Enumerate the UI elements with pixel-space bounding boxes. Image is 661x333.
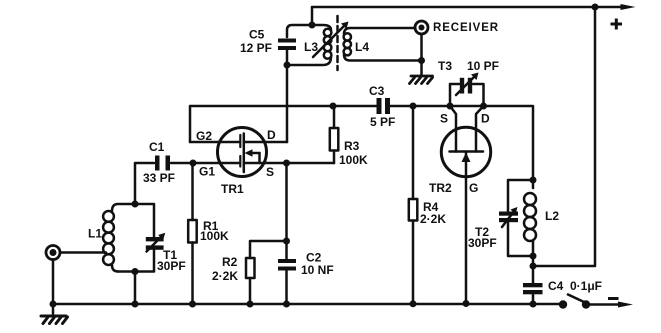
svg-text:G1: G1 <box>199 165 215 179</box>
svg-text:T3: T3 <box>438 59 452 73</box>
wire T3 bridge <box>450 84 484 106</box>
trimmer capacitor T2 <box>499 207 518 227</box>
wire C5 bottom to node <box>286 50 289 65</box>
wire jack down to ground rail <box>52 260 55 317</box>
label C4 value <box>548 279 602 293</box>
wire tank1 bottom <box>118 250 154 272</box>
transformer core (dashed) <box>336 16 339 70</box>
junction dot jack at rail <box>50 301 57 308</box>
junction dot R4 at rail <box>410 300 417 307</box>
capacitor C4 <box>523 283 543 294</box>
wire bottom ground rail <box>53 303 561 306</box>
svg-text:33 PF: 33 PF <box>143 171 175 185</box>
svg-text:C1: C1 <box>149 140 165 154</box>
svg-text:10 PF: 10 PF <box>467 59 499 73</box>
wire source node down to C2/R2 <box>285 163 288 241</box>
junction dot C1/R1/G1 <box>190 160 197 167</box>
svg-text:D: D <box>481 112 490 126</box>
junction dot R1 at rail <box>189 301 196 308</box>
inductor L1 <box>103 211 118 272</box>
junction dot L3 top node <box>309 22 316 29</box>
label R4 value <box>420 200 446 226</box>
capacitor C5 <box>278 39 296 51</box>
wire G2 loop / R3-C3 rail <box>190 106 376 142</box>
label R2 value <box>212 255 238 283</box>
wire C1 line / G1 <box>135 163 239 204</box>
transistor TR1 <box>218 128 267 177</box>
junction dot tank1 top <box>132 201 139 208</box>
svg-text:100K: 100K <box>339 153 368 167</box>
label R1 value <box>200 219 229 243</box>
inductor L2 <box>524 180 536 256</box>
capacitor C1 <box>155 156 170 171</box>
transistor TR2 <box>441 106 490 303</box>
trimmer capacitor T1 <box>146 233 166 252</box>
svg-text:RECEIVER: RECEIVER <box>433 22 499 34</box>
wire TR1 source line to R3 bottom <box>244 162 334 165</box>
junction dot T3 right / TR2 D <box>480 103 487 110</box>
svg-text:L3: L3 <box>304 40 318 54</box>
svg-text:30PF: 30PF <box>468 236 497 250</box>
label minus terminal <box>608 297 619 300</box>
svg-text:S: S <box>266 165 274 179</box>
junction dot R2 at rail <box>247 301 254 308</box>
wire C4 bottom to rail <box>532 294 535 304</box>
svg-text:L4: L4 <box>355 40 369 54</box>
svg-text:12 PF: 12 PF <box>240 41 272 55</box>
label C2 value <box>301 251 334 278</box>
junction dot L2 bottom <box>530 253 537 260</box>
receiver jack <box>415 21 428 34</box>
wire switch to minus arrow <box>585 302 633 308</box>
resistor R4 <box>409 199 418 303</box>
label R3 value <box>339 139 368 167</box>
inductor L3 <box>287 25 331 65</box>
label T1 value <box>157 248 186 273</box>
wire receiver sleeve to ground <box>420 34 423 76</box>
junction dot right rail joins <box>530 263 537 270</box>
junction dot C2 top <box>283 238 290 245</box>
svg-text:S: S <box>440 112 448 126</box>
resistor R3 <box>330 106 339 163</box>
wire R4 branch <box>412 106 415 199</box>
svg-text:0·1μF: 0·1μF <box>570 279 602 293</box>
switch S1 <box>559 295 590 309</box>
svg-text:L2: L2 <box>545 209 559 223</box>
svg-text:R2: R2 <box>222 255 238 269</box>
capacitor C3 <box>377 98 391 114</box>
label T2 value <box>468 225 497 250</box>
svg-text:R3: R3 <box>344 139 360 153</box>
wire +V right rail down <box>536 7 595 266</box>
junction dot tank1 at rail <box>132 301 139 308</box>
ground (main) <box>41 316 68 324</box>
junction dot top rail x594 <box>592 4 599 11</box>
svg-text:5 PF: 5 PF <box>370 115 395 129</box>
wire rail C3 right section <box>390 106 533 180</box>
wire tank1 top <box>112 204 154 237</box>
input jack <box>46 246 60 260</box>
svg-text:2·2K: 2·2K <box>420 212 446 226</box>
junction dot C3 right / R4 top <box>410 103 417 110</box>
junction dot C4 at rail <box>530 301 537 308</box>
svg-text:10 NF: 10 NF <box>301 263 334 277</box>
capacitor C2 <box>278 241 296 304</box>
tuning arrow through L3 <box>313 22 349 58</box>
junction dot C5 bottom / L3 bottom <box>284 62 291 69</box>
wire tank2 T2 branch <box>508 180 533 256</box>
label C5 <box>240 28 272 56</box>
junction dot source node <box>283 160 290 167</box>
svg-text:L1: L1 <box>88 227 102 241</box>
svg-text:D: D <box>267 128 276 142</box>
junction dot TR2 gate at rail <box>463 300 470 307</box>
svg-text:C4: C4 <box>548 279 564 293</box>
node top rail to L3 top <box>311 7 314 25</box>
junction dot L2 top <box>530 177 537 184</box>
label T3 value <box>438 59 499 73</box>
inductor L4 <box>344 28 422 61</box>
ground (receiver) <box>410 76 433 84</box>
svg-text:G2: G2 <box>196 129 212 143</box>
svg-text:G: G <box>469 181 478 195</box>
resistor R1 <box>188 163 197 304</box>
svg-text:C3: C3 <box>369 84 385 98</box>
svg-text:100K: 100K <box>200 229 229 243</box>
wire L3 bottom node down to TR1 drain <box>286 65 289 142</box>
junction dot L4 bottom / receiver ground <box>418 57 425 64</box>
svg-text:2·2K: 2·2K <box>212 269 238 283</box>
wire L2 bottom to C4 <box>532 256 535 283</box>
resistor R2 <box>246 258 255 304</box>
svg-text:C5: C5 <box>249 28 265 42</box>
svg-text:30PF: 30PF <box>157 259 186 273</box>
wire R2 top branch <box>250 241 287 258</box>
wire +V top rail <box>312 6 627 9</box>
wire tank1 bottom to rail <box>134 272 137 305</box>
wire TR1 drain to C5 node <box>244 141 287 144</box>
svg-text:TR2: TR2 <box>429 181 452 195</box>
junction dot T3 left / TR2 S <box>447 103 454 110</box>
arrowhead +V rail <box>621 4 636 10</box>
junction dot C2 at rail <box>283 301 290 308</box>
trimmer capacitor T3 <box>456 73 479 96</box>
wire jack to L1 tap <box>60 251 106 254</box>
junction dot tank1 bottom <box>132 268 139 275</box>
svg-text:TR1: TR1 <box>221 182 244 196</box>
label plus terminal <box>611 19 623 30</box>
label C1 value <box>143 140 175 185</box>
wire G2 lead <box>190 141 239 144</box>
wire L3 top node to C5 top <box>287 25 312 37</box>
label C3 value <box>369 84 395 129</box>
junction dot R3 top <box>330 103 337 110</box>
